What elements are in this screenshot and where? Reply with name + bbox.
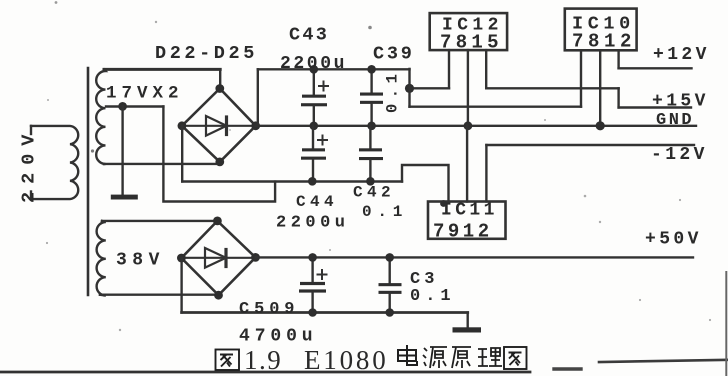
wire 38V bottom lead	[100, 294, 218, 296]
capacitor C42	[369, 126, 371, 149]
svg-text:1.9: 1.9	[244, 345, 282, 375]
wire GND rail	[256, 125, 696, 127]
IC11 7912	[428, 202, 506, 239]
node bridge2 bottom	[214, 291, 223, 300]
capacitor C39	[370, 69, 372, 93]
svg-text:0.1: 0.1	[362, 203, 408, 221]
node bridge1 top	[215, 84, 224, 93]
wire mid negative rail	[182, 180, 402, 182]
primary lead ticks	[30, 126, 32, 134]
pin2 IC11 to gnd	[466, 126, 468, 202]
caption 源	[423, 347, 447, 368]
wire bridge1 top drop	[219, 69, 221, 88]
pin3 IC12	[485, 50, 487, 88]
node bridge1 right	[251, 121, 260, 130]
diode symbol bridge2	[184, 257, 253, 259]
svg-text:2200u: 2200u	[276, 214, 350, 233]
bridge rectifier 2	[181, 221, 255, 295]
svg-text:D22-D25: D22-D25	[155, 43, 258, 64]
caption 理	[478, 348, 502, 366]
caption 图 (first)	[216, 350, 240, 371]
svg-text:0.1: 0.1	[384, 69, 402, 113]
svg-text:C509: C509	[239, 300, 299, 319]
wire raw lower branch to IC10	[410, 105, 582, 107]
node bridge1 bottom	[215, 158, 224, 167]
wire IC12 out to IC10 area	[486, 87, 618, 89]
caption 原	[452, 347, 471, 368]
bottom border line	[0, 371, 530, 374]
wire bridge1 left drop	[181, 126, 183, 182]
node bridge2 top	[213, 217, 222, 226]
svg-text:4700u: 4700u	[239, 327, 318, 347]
pin1 IC10	[580, 50, 582, 106]
wire -12V output	[486, 144, 694, 146]
bridge rectifier D22-D25	[182, 89, 256, 162]
ground (bottom rail)	[453, 327, 482, 332]
pin2 IC12	[467, 50, 469, 126]
wire 38V top lead	[102, 220, 217, 222]
wire +12V output	[619, 67, 692, 69]
wire to ground bottom	[467, 313, 469, 329]
svg-text:+15V: +15V	[652, 92, 709, 112]
primary winding 220V	[31, 126, 78, 199]
wire bridge1 right up to top rail	[257, 69, 259, 126]
right edge line	[725, 272, 727, 376]
node C3 bottom	[385, 308, 394, 317]
node bridge1 left	[178, 121, 187, 130]
node C39 bottom (GND rail)	[367, 122, 376, 131]
wire bridge2 left drop	[180, 258, 182, 313]
wire secondary bottom lead	[104, 163, 219, 165]
transformer T core	[87, 68, 90, 295]
svg-text:2200u: 2200u	[280, 54, 347, 74]
svg-text:-12V: -12V	[651, 145, 708, 165]
wire +15V drop	[617, 88, 619, 107]
wire tap to ground	[121, 107, 123, 196]
38V winding	[97, 221, 106, 296]
node C42 bottom	[366, 177, 375, 186]
node IC10 pin2 gnd	[596, 121, 605, 130]
wire raw node vertical	[408, 69, 410, 107]
pin3 IC10	[617, 50, 619, 68]
diode symbol bridge1	[184, 125, 253, 127]
pin1 IC12	[448, 50, 450, 88]
wire raw to IC12 input	[410, 87, 450, 89]
node C43 top	[310, 65, 319, 74]
capacitor C509	[311, 257, 313, 282]
svg-text:0.1: 0.1	[410, 287, 456, 306]
wire tap extension down	[163, 107, 275, 202]
node bridge2 right	[251, 253, 260, 262]
svg-text:+12V: +12V	[653, 45, 710, 65]
node C3 top (+50V rail)	[385, 253, 394, 262]
wire negative rail to IC11	[402, 165, 449, 202]
node bridge2 left	[177, 254, 186, 263]
capacitor C3	[389, 257, 391, 283]
node C44 bottom	[308, 177, 317, 186]
wire +15V output	[619, 106, 691, 108]
capacitor C43	[313, 69, 315, 95]
dash line right	[599, 360, 728, 362]
pin3 IC11	[485, 145, 487, 202]
svg-text:C42: C42	[353, 184, 395, 202]
node C39 top	[367, 65, 376, 74]
pin2 IC10	[599, 50, 601, 126]
svg-text:7912: 7912	[433, 221, 493, 243]
IC10 7812	[565, 9, 637, 51]
node IC12 pin2 gnd	[464, 121, 473, 130]
wire top rail (raw +V)	[258, 68, 410, 70]
ground (center tap)	[111, 195, 138, 200]
pin1 IC11 entry blob	[440, 200, 447, 207]
wire secondary top lead	[104, 68, 220, 71]
node raw branch	[405, 84, 414, 93]
svg-text:C43: C43	[289, 25, 329, 46]
wire center tap	[106, 105, 163, 107]
wire bottom rail	[182, 311, 468, 314]
svg-text:17VX2: 17VX2	[106, 84, 184, 104]
svg-text:220V: 220V	[19, 127, 40, 203]
noise dot	[55, 1, 58, 4]
svg-text:E1080: E1080	[304, 345, 389, 375]
wire +50V rail	[256, 256, 694, 258]
node tap junction	[118, 102, 127, 111]
svg-text:C44: C44	[296, 193, 338, 211]
IC12 7815	[430, 13, 507, 50]
scan noise	[46, 21, 711, 331]
node C509 top (+50V rail)	[308, 253, 317, 262]
caption 图 (second)	[504, 347, 527, 369]
node C43 bottom (GND rail)	[310, 122, 319, 131]
secondary winding 17VX2	[96, 69, 105, 164]
svg-text:38V: 38V	[116, 251, 165, 271]
svg-text:C39: C39	[373, 44, 415, 65]
node C509 bottom	[308, 308, 317, 317]
svg-text:IC11: IC11	[441, 201, 498, 221]
capacitor C44	[312, 126, 314, 149]
svg-text:+50V: +50V	[645, 230, 702, 250]
caption 电	[398, 345, 417, 365]
underscore mark	[554, 367, 581, 370]
svg-text:GND: GND	[656, 111, 694, 130]
